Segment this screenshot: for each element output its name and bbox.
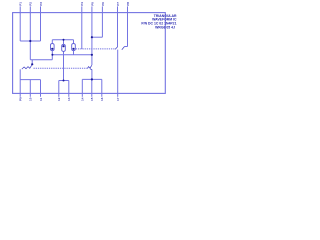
wire branch to Q1 collector bbox=[31, 60, 33, 65]
pin 10 stub bbox=[29, 93, 31, 96]
bottom pin labels bbox=[19, 97, 121, 101]
pin 9 stub bbox=[19, 93, 21, 96]
svg-text:P7: P7 bbox=[116, 2, 120, 6]
pin 17 stub bbox=[117, 93, 119, 96]
pin 12 stub bbox=[58, 93, 60, 96]
svg-text:11: 11 bbox=[39, 97, 43, 101]
svg-text:P3: P3 bbox=[39, 2, 43, 6]
pin 1 stub bbox=[19, 6, 21, 13]
svg-text:15: 15 bbox=[90, 97, 94, 101]
wire pin1 down bbox=[19, 13, 21, 41]
wire pin7 down bbox=[117, 13, 119, 47]
svg-text:P4: P4 bbox=[80, 2, 84, 6]
top pin labels bbox=[19, 2, 130, 6]
svg-text:17: 17 bbox=[116, 97, 120, 101]
current source S3 bbox=[72, 40, 76, 51]
pin 13 stub bbox=[68, 93, 70, 96]
pin 15 stub bbox=[91, 93, 93, 96]
pin 16 stub bbox=[101, 93, 103, 96]
wire Q3 emitter long down bbox=[117, 50, 119, 94]
junction dot F (91.9,79.4) bbox=[91, 78, 93, 80]
svg-text:P5: P5 bbox=[90, 2, 94, 6]
pin 3 stub bbox=[40, 6, 42, 13]
title block text bbox=[141, 14, 177, 29]
pin 11 stub bbox=[40, 93, 42, 96]
wire pin14 up bbox=[81, 79, 83, 93]
svg-text:16: 16 bbox=[100, 97, 104, 101]
wire pin15 up bbox=[91, 79, 93, 93]
pin 5 stub bbox=[91, 6, 93, 13]
wire pin10 up bbox=[29, 80, 31, 94]
svg-text:P9: P9 bbox=[19, 97, 23, 101]
dashed base bus 2 bbox=[34, 67, 88, 69]
top pin stubs bbox=[20, 6, 127, 13]
wire pin4 down bbox=[81, 13, 83, 49]
wire pin12 up bbox=[58, 81, 60, 94]
pin 2 stub bbox=[29, 6, 31, 13]
svg-text:13: 13 bbox=[67, 97, 71, 101]
svg-text:P2: P2 bbox=[29, 2, 33, 6]
transistor Q2 (right-middle, tiny) bbox=[88, 65, 92, 70]
wire S2 bottom down bbox=[63, 51, 65, 80]
IC subcircuit border bbox=[13, 13, 166, 94]
svg-text:P1: P1 bbox=[19, 2, 23, 6]
transistor Q3 (top-right, tiny) bbox=[115, 47, 124, 50]
pin 14 stub bbox=[81, 93, 83, 96]
junction dot A (30.3,41) bbox=[29, 40, 31, 42]
svg-text:14: 14 bbox=[81, 97, 85, 101]
junction dot E (91.9,55.3) bbox=[91, 54, 93, 56]
bottom pin stubs bbox=[20, 93, 118, 96]
junction dot D (91.9,37.2) bbox=[91, 36, 93, 38]
wire pin16 up bbox=[101, 79, 103, 93]
wire sources top rail bbox=[52, 39, 73, 41]
wire h y37.2 bbox=[92, 36, 103, 38]
wire pin8 down bbox=[127, 13, 129, 47]
wire Q1 emitter down bbox=[19, 69, 21, 79]
svg-text:P6: P6 bbox=[101, 2, 105, 6]
wire Q2 emitter down bbox=[91, 69, 93, 79]
wire S1 bottom riser bbox=[51, 51, 53, 60]
junction dot B (63.5,39.7) bbox=[63, 39, 65, 41]
wire pin13 up bbox=[68, 81, 70, 94]
current source S1 bbox=[51, 40, 55, 51]
wire pin2 down bbox=[29, 13, 31, 60]
svg-text:12: 12 bbox=[57, 97, 61, 101]
svg-text:WRG8 05 4J: WRG8 05 4J bbox=[155, 25, 175, 29]
wire pin11 up bbox=[40, 80, 42, 94]
svg-text:10: 10 bbox=[29, 97, 33, 101]
wire S3 bottom stub bbox=[73, 51, 75, 55]
wire pin8 hook bbox=[124, 46, 127, 48]
wire sources bottom rail bbox=[52, 54, 92, 56]
junction dot C (32.6,64.3) bbox=[31, 63, 33, 65]
wire bus y41 bbox=[20, 40, 40, 42]
wire mid bus bbox=[59, 80, 69, 82]
current source S2 bbox=[62, 40, 66, 52]
wire bottom-left bus bbox=[20, 79, 40, 81]
wire pin5 down bbox=[91, 13, 93, 65]
pin 6 stub bbox=[101, 6, 103, 13]
transistor Q1 (left, tiny) bbox=[22, 65, 32, 69]
wire pin9 up bbox=[19, 80, 21, 94]
svg-text:P8: P8 bbox=[126, 2, 130, 6]
wire bottom-right bus bbox=[82, 78, 102, 80]
internal wires bbox=[20, 13, 127, 94]
pin 8 stub bbox=[127, 6, 129, 13]
junction dot G (52.4,54.8) bbox=[51, 54, 53, 56]
pin 7 stub bbox=[117, 6, 119, 13]
wire pin6 down bbox=[101, 13, 103, 38]
wire pin3 down bbox=[40, 13, 42, 41]
junction dot H (63.5,80.5) bbox=[63, 80, 65, 82]
dashed base bus 1 bbox=[76, 48, 116, 50]
wire h y59.7 bbox=[30, 59, 52, 61]
pin 4 stub bbox=[81, 6, 83, 13]
